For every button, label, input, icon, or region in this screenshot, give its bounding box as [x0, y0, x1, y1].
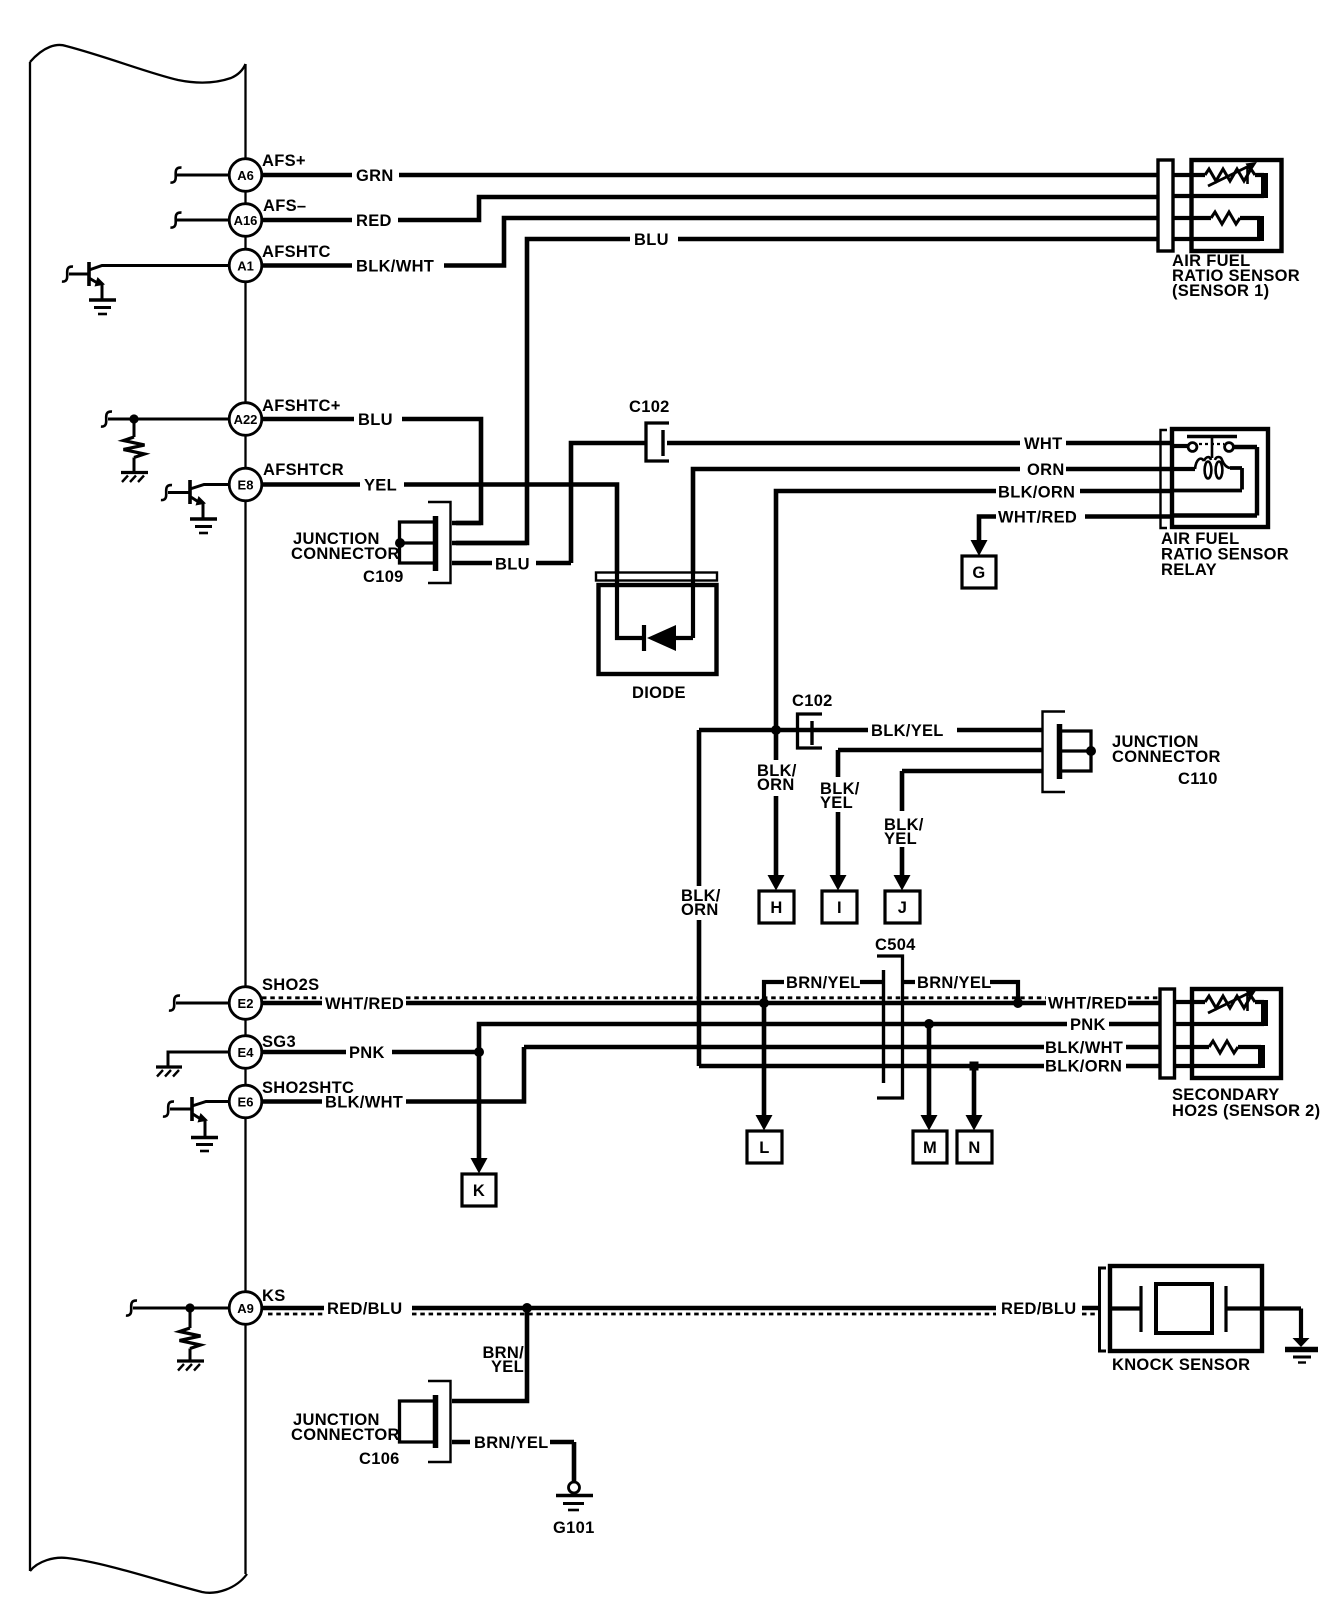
svg-text:BRN/YEL: BRN/YEL: [474, 1434, 549, 1452]
svg-text:C110: C110: [1178, 770, 1218, 788]
resistor to ground at A9: [180, 1308, 201, 1360]
wire BLK/WHT from E6 to sensor 2: [262, 1047, 1161, 1102]
wire BLU from C109 up through C102 to relay WHT: [571, 443, 1172, 563]
label JUNCTION CONNECTOR C106: [291, 1411, 400, 1468]
sensor 2 element (resistor with arrow): [1175, 989, 1265, 1026]
svg-text:G101: G101: [553, 1519, 595, 1537]
connector box J: [885, 891, 920, 923]
svg-text:A9: A9: [237, 1301, 254, 1316]
ECM torn-edge frame left vertical: [29, 62, 31, 1571]
pin A6 stub wire: [170, 168, 229, 183]
arrow into H: [768, 875, 785, 891]
wire BLU from A22 to junction connector C109: [262, 419, 482, 523]
wire BLK/ORN from relay down to C102 node: [776, 491, 1172, 730]
svg-text:C106: C106: [359, 1450, 400, 1468]
pin A16 circle: [229, 204, 262, 237]
sensor 1 heater resistor: [1173, 212, 1261, 241]
arrow into I: [830, 875, 847, 891]
svg-text:RED/BLU: RED/BLU: [1001, 1300, 1076, 1318]
svg-text:E8: E8: [238, 478, 254, 493]
junction square N node: [970, 1062, 979, 1071]
diode connector bar: [596, 573, 717, 581]
connector box K: [462, 1174, 496, 1206]
svg-text:WHT/RED: WHT/RED: [1048, 995, 1127, 1013]
wire down to N: [972, 1066, 977, 1116]
label BRN/ YEL column: [482, 1344, 524, 1376]
wire label BLU (upper): [630, 228, 678, 249]
svg-text:PNK: PNK: [349, 1044, 385, 1062]
junction connector C110 loop: [1061, 731, 1096, 771]
svg-text:GRN: GRN: [356, 167, 394, 185]
svg-text:SHO2S: SHO2S: [262, 976, 319, 994]
arrow into M: [921, 1115, 938, 1131]
junction dot BRN/YEL tap: [522, 1303, 532, 1313]
label AIR FUEL RATIO SENSOR RELAY: [1161, 530, 1289, 579]
svg-text:DIODE: DIODE: [632, 684, 686, 702]
svg-text:HO2S (SENSOR 2): HO2S (SENSOR 2): [1172, 1102, 1320, 1120]
arrow into K: [471, 1158, 488, 1174]
wire BLK/ORN to BLK/YEL horizontal through C102: [699, 728, 1043, 733]
air fuel ratio sensor box: [1192, 160, 1282, 251]
svg-text:WHT/RED: WHT/RED: [325, 995, 404, 1013]
svg-text:CONNECTOR: CONNECTOR: [291, 1426, 400, 1444]
sensor 1 connector bar: [1158, 160, 1173, 251]
svg-text:BLK/ORN: BLK/ORN: [998, 484, 1075, 502]
pin E8 circle: [229, 468, 262, 501]
svg-text:ORN: ORN: [757, 776, 795, 794]
svg-text:ORN: ORN: [1027, 461, 1065, 479]
wire BLK/WHT from A1 to sensor 1: [262, 218, 1159, 266]
arrow into L: [756, 1115, 773, 1131]
wire PNK riser and run to sensor 2: [479, 1024, 1160, 1052]
pin A9 stub wire with junction dot: [126, 1301, 230, 1316]
knock sensor case ground wire: [1262, 1309, 1301, 1341]
wire YEL from E8 to diode: [262, 485, 618, 574]
connector box I: [822, 891, 857, 923]
svg-text:BLK/WHT: BLK/WHT: [356, 258, 434, 276]
ground at Q3 emitter: [191, 1138, 218, 1152]
svg-text:A22: A22: [234, 412, 258, 427]
svg-text:AFS+: AFS+: [262, 152, 306, 170]
svg-text:AFSHTC: AFSHTC: [262, 243, 331, 261]
junction connector C109 loop: [395, 522, 433, 563]
junction connector C109 shell bracket: [428, 502, 451, 583]
svg-text:H: H: [770, 899, 782, 917]
wire ORN from relay to diode: [693, 469, 1172, 573]
connector box N: [957, 1131, 992, 1163]
wire RED/BLU from A9 to knock sensor (solid): [262, 1306, 1100, 1311]
wire RED/BLU shield dashed: [268, 1313, 1099, 1316]
C109 right pins: [452, 523, 571, 563]
svg-text:AFSHTC+: AFSHTC+: [262, 397, 341, 415]
ECM connector backbone vertical: [244, 64, 246, 1574]
svg-text:KS: KS: [262, 1287, 286, 1305]
svg-text:A1: A1: [237, 259, 254, 274]
pin E2 stub wire: [169, 996, 230, 1011]
svg-text:ORN: ORN: [681, 901, 719, 919]
connector box L: [747, 1131, 782, 1163]
secondary HO2S box: [1192, 989, 1281, 1078]
BRN/YEL tap right of C504: [904, 974, 1023, 1008]
svg-text:BRN/YEL: BRN/YEL: [786, 974, 861, 992]
wire WHT/RED from relay to G: [979, 517, 1172, 542]
wire WHT/RED from E2 to sensor 2 (solid): [262, 1001, 1161, 1006]
wire BLK/ORN long vertical to sensor 2: [697, 730, 702, 1066]
svg-text:YEL: YEL: [491, 1358, 524, 1376]
svg-text:RELAY: RELAY: [1161, 561, 1217, 579]
BRN/YEL tap left of C504: [759, 974, 883, 1008]
svg-text:E4: E4: [238, 1045, 255, 1060]
pin A16 stub wire: [170, 213, 229, 228]
arrow into J: [894, 875, 911, 891]
ground G101: [553, 1482, 595, 1537]
svg-text:A6: A6: [237, 168, 254, 183]
ground 777 at A9 resistor: [177, 1361, 204, 1371]
diode D1: [617, 571, 693, 651]
svg-text:BRN/YEL: BRN/YEL: [917, 974, 992, 992]
svg-text:CONNECTOR: CONNECTOR: [1112, 748, 1221, 766]
svg-text:RED/BLU: RED/BLU: [327, 1300, 402, 1318]
label JUNCTION CONNECTOR C109: [291, 530, 404, 586]
svg-text:BLK/ORN: BLK/ORN: [1045, 1058, 1122, 1076]
label BLK/YEL column I: [820, 780, 860, 812]
pin A1 circle: [229, 249, 262, 282]
knock sensor connector bracket: [1100, 1268, 1107, 1351]
junction connector C110 shell bracket: [1043, 712, 1066, 793]
relay connector bracket: [1161, 430, 1168, 528]
wire BRN/YEL from C106 to G101: [452, 1442, 574, 1481]
relay coil: [1172, 457, 1242, 491]
wire BLK/YEL lower to C110: [902, 771, 1043, 876]
connector box H: [759, 891, 794, 923]
svg-text:C504: C504: [875, 936, 916, 954]
transistor Q1 at pin A1: [62, 262, 230, 299]
pin E4 wire to ground: [168, 1052, 230, 1066]
resistor to ground at A22: [124, 419, 145, 471]
svg-text:(SENSOR 1): (SENSOR 1): [1172, 282, 1269, 300]
air fuel ratio sensor relay box: [1172, 429, 1268, 527]
svg-text:I: I: [837, 899, 842, 917]
svg-text:BLK/YEL: BLK/YEL: [871, 722, 944, 740]
arrow into G: [971, 540, 988, 556]
wire to L: [762, 1003, 767, 1116]
connector C102 (lower): [792, 692, 833, 748]
svg-text:WHT/RED: WHT/RED: [998, 509, 1077, 527]
svg-text:AFS–: AFS–: [263, 197, 306, 215]
junction dot M node: [924, 1019, 934, 1029]
sensor 1 element (resistor with arrow): [1173, 162, 1265, 198]
svg-text:BLK/WHT: BLK/WHT: [325, 1094, 403, 1112]
ECM torn-edge bottom wave: [30, 1558, 247, 1593]
svg-text:A16: A16: [234, 213, 258, 228]
ECM torn-edge top wave: [30, 45, 246, 83]
svg-text:YEL: YEL: [884, 830, 917, 848]
svg-text:E6: E6: [238, 1095, 254, 1110]
svg-text:YEL: YEL: [364, 477, 397, 495]
wire PNK from E4: [262, 1050, 482, 1055]
wire GRN from A6 to sensor 1: [262, 173, 1159, 178]
wire BLK/ORN vertical to H: [774, 730, 779, 876]
junction dot K node: [474, 1047, 484, 1057]
label JUNCTION CONNECTOR C110: [1112, 733, 1221, 788]
wire BLK/YEL middle to C110: [838, 750, 1043, 876]
junction connector C106 shell bracket: [428, 1381, 451, 1462]
svg-text:C102: C102: [629, 398, 670, 416]
ground at Q1 emitter: [89, 300, 116, 314]
junction connector C109 body bar: [433, 516, 439, 571]
svg-text:L: L: [759, 1139, 769, 1157]
svg-text:M: M: [923, 1139, 937, 1157]
label BLK/ORN column left: [681, 887, 721, 919]
svg-text:PNK: PNK: [1070, 1016, 1106, 1034]
junction connector C106 loop: [400, 1401, 434, 1442]
svg-text:RED: RED: [356, 212, 392, 230]
wire RED from A16 to sensor 1: [262, 197, 1159, 220]
pin A6 circle: [229, 159, 262, 192]
svg-text:BLU: BLU: [495, 556, 530, 574]
transistor Q3 at pin E6: [163, 1097, 230, 1136]
svg-text:E2: E2: [238, 996, 254, 1011]
arrow into N: [966, 1115, 983, 1131]
svg-text:G: G: [972, 564, 985, 582]
wire WHT/RED shield dashed: [262, 996, 1160, 999]
svg-text:K: K: [473, 1182, 485, 1200]
junction connector C106 body bar: [433, 1395, 439, 1448]
svg-text:BLU: BLU: [358, 411, 393, 429]
sensor 2 heater resistor: [1175, 1041, 1262, 1068]
wire down to M: [927, 1024, 932, 1116]
connector box G: [962, 556, 996, 588]
knock sensor piezo element: [1110, 1284, 1262, 1333]
svg-text:BLK/WHT: BLK/WHT: [1045, 1039, 1123, 1057]
svg-text:SG3: SG3: [262, 1033, 296, 1051]
diode box: [599, 585, 717, 674]
pin A9 circle: [229, 1292, 262, 1325]
pin E2 circle: [229, 987, 262, 1020]
ground at Q2 emitter: [190, 519, 217, 533]
pin E6 circle: [229, 1085, 262, 1118]
pin A22 stub wire with junction dot: [101, 412, 230, 427]
label SECONDARY HO2S (SENSOR 2): [1172, 1086, 1320, 1120]
svg-text:YEL: YEL: [820, 794, 853, 812]
ground 777 at E4: [156, 1067, 182, 1077]
wire BLK/ORN bottom run to sensor 2: [699, 1064, 1160, 1069]
svg-text:BLU: BLU: [634, 231, 669, 249]
junction connector C110 body bar: [1057, 724, 1063, 779]
wire BRN/YEL down to C106: [452, 1308, 527, 1401]
pin A22 circle: [229, 403, 262, 436]
svg-text:C109: C109: [363, 568, 404, 586]
junction dot H node: [771, 725, 781, 735]
connector C504: [875, 936, 916, 1098]
wire BLU from sensor 1 down to C109: [456, 239, 1158, 543]
svg-text:N: N: [968, 1139, 980, 1157]
pin E4 circle: [229, 1036, 262, 1069]
sensor 2 connector bar: [1160, 989, 1175, 1078]
svg-text:KNOCK SENSOR: KNOCK SENSOR: [1112, 1356, 1250, 1374]
knock sensor box: [1110, 1266, 1262, 1351]
svg-text:AFSHTCR: AFSHTCR: [263, 461, 344, 479]
ground 777 at A22 resistor: [121, 473, 148, 483]
svg-text:C102: C102: [792, 692, 833, 710]
svg-text:WHT: WHT: [1024, 435, 1062, 453]
relay switch contacts: [1172, 437, 1257, 516]
ground at knock sensor: [1285, 1338, 1318, 1363]
label BLK/ORN column H: [757, 762, 797, 794]
label AIR FUEL RATIO SENSOR (SENSOR 1): [1172, 252, 1300, 300]
wire down to K: [477, 1052, 482, 1159]
svg-text:CONNECTOR: CONNECTOR: [291, 545, 400, 563]
connector box M: [913, 1131, 947, 1163]
svg-text:J: J: [898, 899, 907, 917]
connector C102 (upper): [629, 398, 670, 461]
label BLK/YEL column J: [884, 816, 924, 848]
transistor Q2 at pin E8: [161, 480, 230, 518]
